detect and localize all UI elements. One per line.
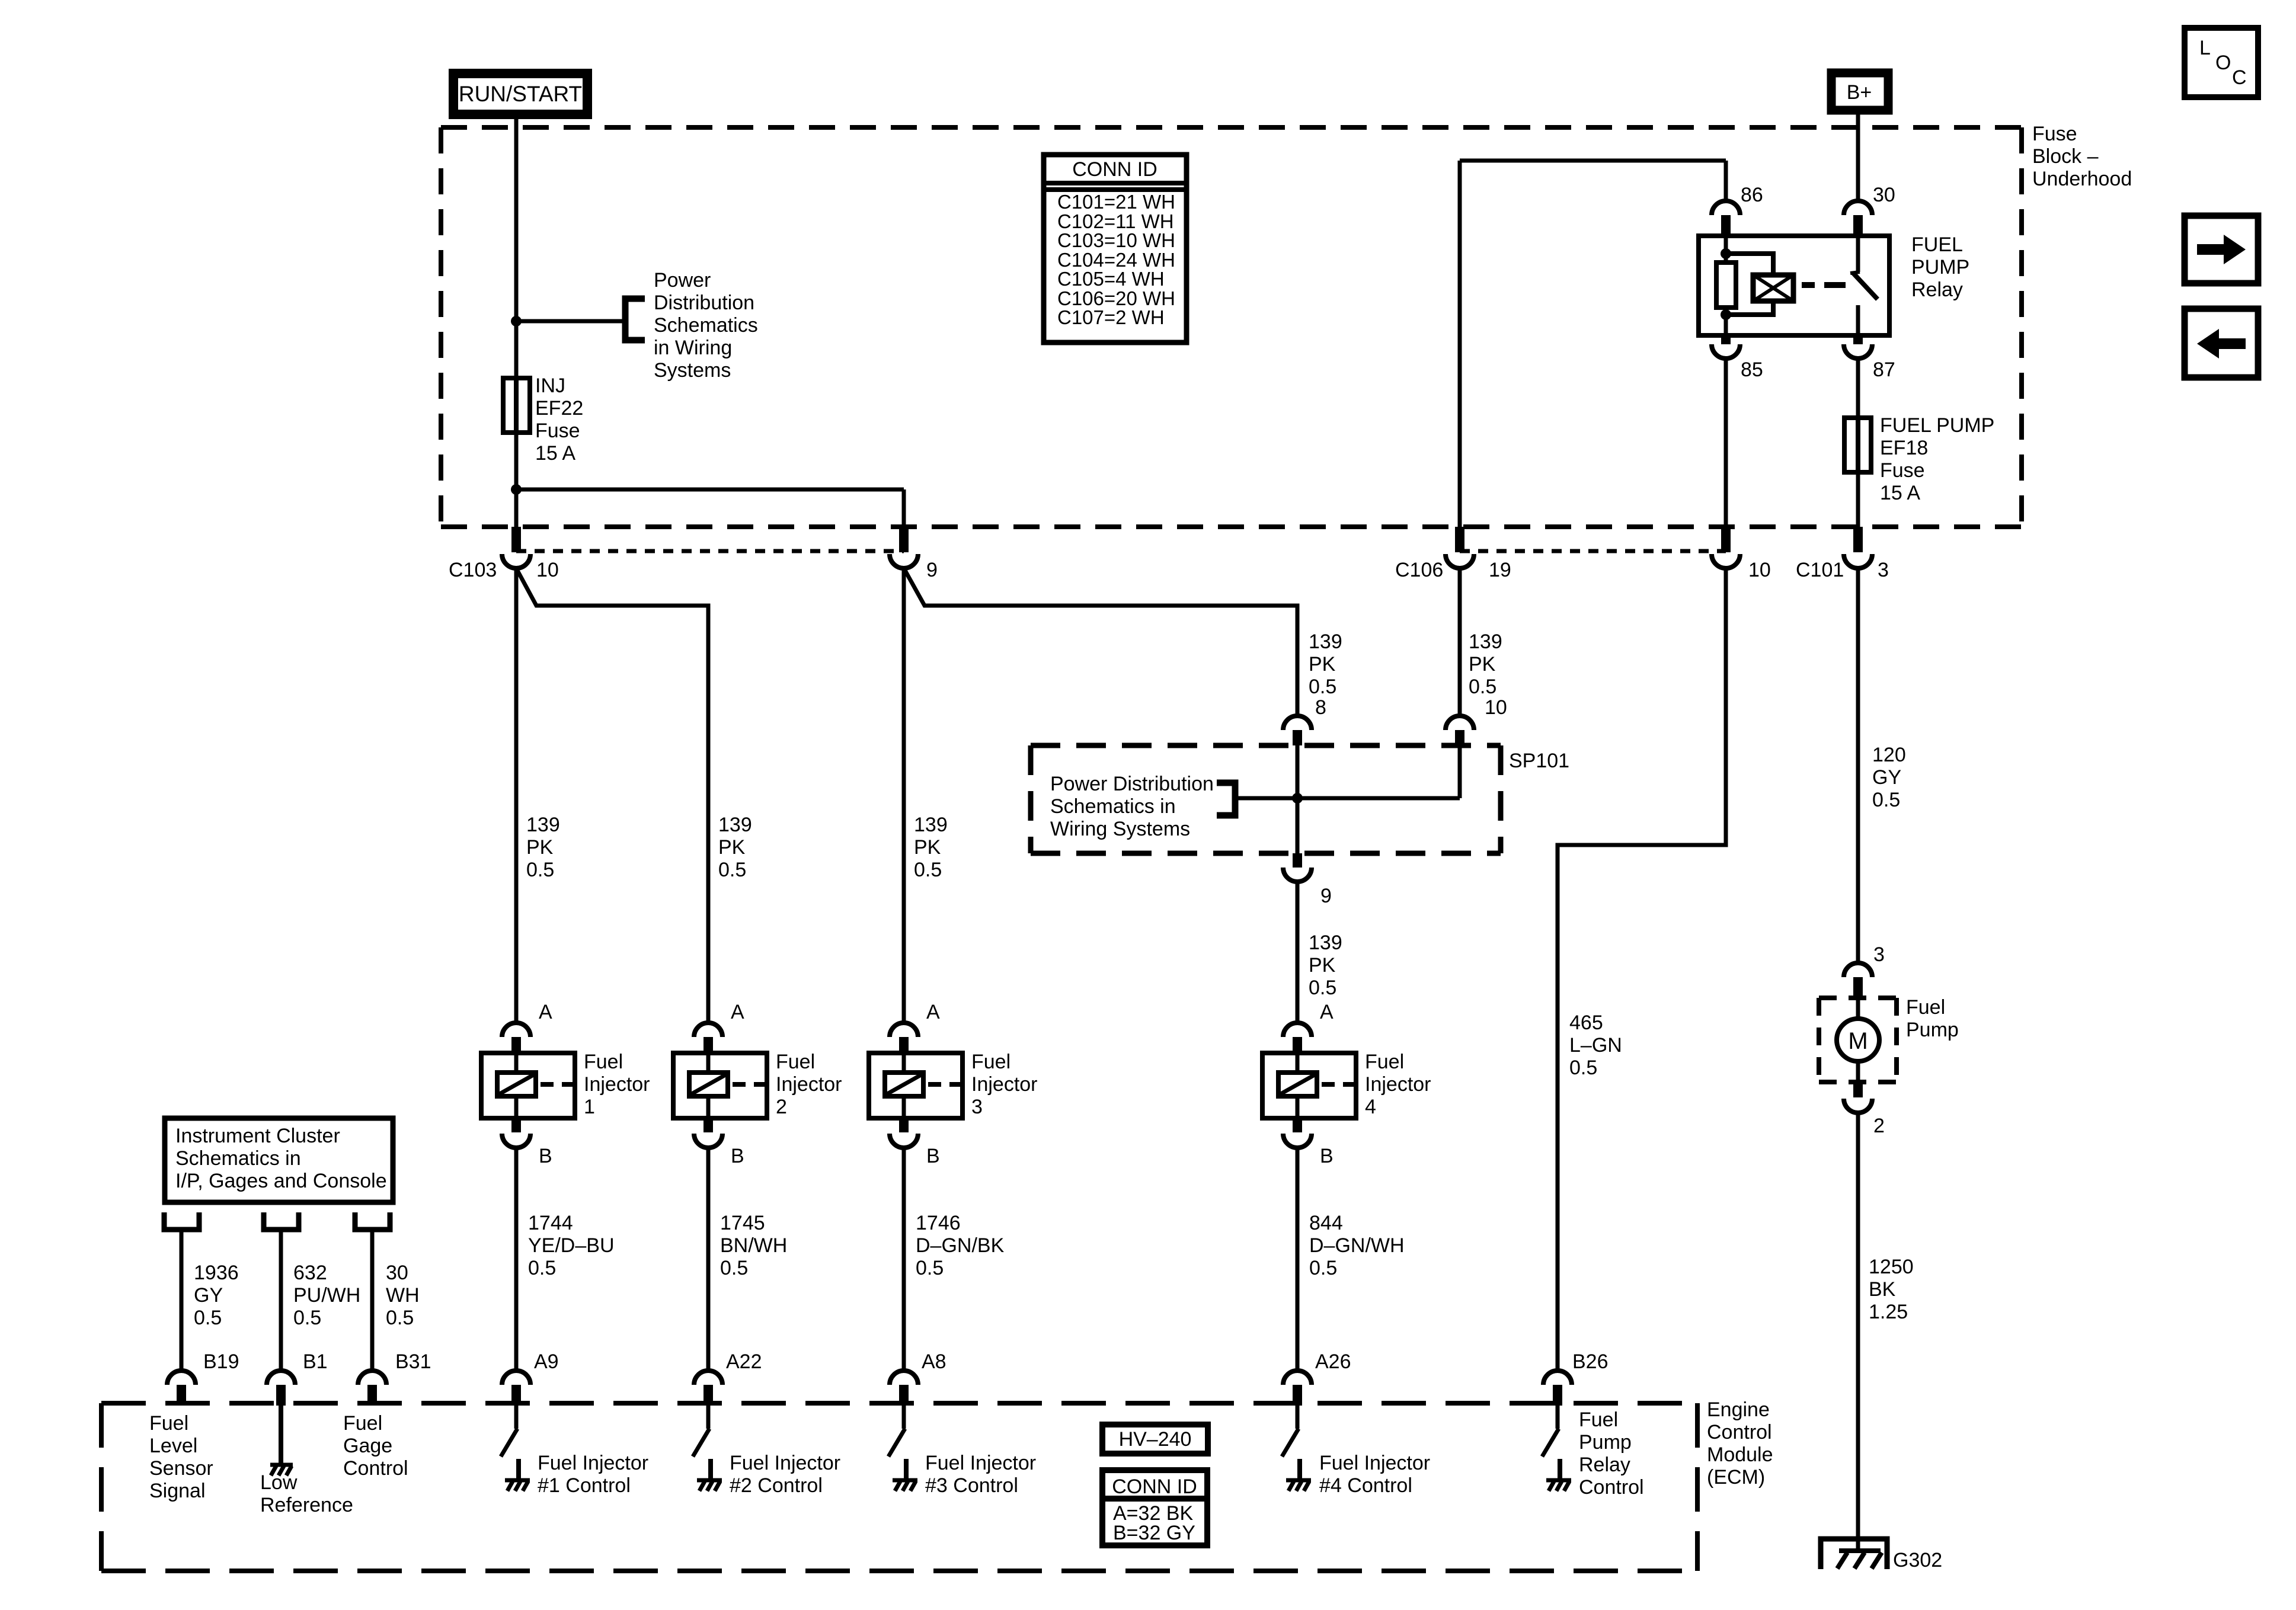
svg-text:INJ: INJ — [535, 375, 565, 397]
wire cluster to B19 — [180, 1230, 184, 1371]
svg-text:C105=4 WH: C105=4 WH — [1057, 268, 1165, 290]
svg-text:C101=21 WH: C101=21 WH — [1057, 191, 1175, 213]
wire injector 2 branch — [516, 568, 708, 1023]
label Fuel Injector #4 Control — [1319, 1452, 1430, 1497]
node junction below EF22 — [511, 484, 522, 495]
wire SP101 pin 8 internal drop — [1296, 745, 1300, 853]
wire pin 9 drop — [902, 489, 906, 527]
svg-text:B19: B19 — [203, 1350, 239, 1373]
wire SP101 pin 9 to injector 4 — [1296, 882, 1300, 1023]
svg-text:RUN/START: RUN/START — [459, 82, 582, 106]
connector SP101 pin 9 — [1283, 853, 1332, 907]
ground low reference — [270, 1465, 293, 1475]
connector B26 — [1543, 1350, 1609, 1406]
svg-text:0.5: 0.5 — [720, 1257, 748, 1279]
svg-text:Sensor: Sensor — [149, 1457, 213, 1480]
svg-text:1: 1 — [584, 1096, 595, 1118]
svg-text:1936: 1936 — [194, 1262, 239, 1284]
label 139 PK 0.5 injector 3 — [914, 814, 948, 881]
svg-text:Fuel: Fuel — [971, 1051, 1011, 1073]
svg-text:19: 19 — [1489, 559, 1511, 581]
connector C103 pin 10 — [449, 527, 559, 581]
svg-text:B26: B26 — [1572, 1350, 1609, 1373]
connector SP101 pin 10 — [1446, 696, 1507, 745]
svg-text:D–GN/WH: D–GN/WH — [1309, 1234, 1405, 1257]
svg-text:PK: PK — [526, 836, 554, 859]
label 632 PU/WH 0.5 — [293, 1262, 360, 1329]
fuel injector 3 — [869, 1001, 1038, 1167]
svg-text:2: 2 — [776, 1096, 787, 1118]
svg-text:PU/WH: PU/WH — [293, 1284, 360, 1307]
connector B31 — [358, 1350, 431, 1406]
connector id table CONN ID — [1044, 155, 1187, 343]
legend box arrow right — [2185, 216, 2258, 283]
connector A8 — [890, 1350, 946, 1406]
fuse INJ EF22 15A — [503, 378, 530, 433]
switch fuel injector 1 control — [501, 1406, 530, 1491]
svg-text:0.5: 0.5 — [386, 1307, 414, 1329]
svg-text:10: 10 — [1748, 559, 1771, 581]
svg-text:B: B — [1320, 1145, 1334, 1167]
svg-text:Systems: Systems — [654, 359, 731, 382]
label Fuel Level Sensor Signal — [149, 1412, 213, 1502]
label Engine Control Module (ECM) — [1707, 1398, 1773, 1489]
wire injector 4 branch — [904, 568, 1297, 716]
relay actuator dashes — [1802, 282, 1815, 288]
svg-text:Power: Power — [654, 269, 711, 292]
svg-text:PK: PK — [1309, 954, 1336, 977]
svg-text:Injector: Injector — [584, 1073, 650, 1096]
svg-text:632: 632 — [293, 1262, 327, 1284]
svg-text:PK: PK — [1469, 653, 1496, 676]
svg-text:Injector: Injector — [776, 1073, 842, 1096]
fuel pump dashed box — [1819, 998, 1897, 1082]
svg-text:B: B — [926, 1145, 940, 1167]
fuel injector 1 — [481, 1001, 650, 1167]
wire injector 4 to A26 — [1296, 1148, 1300, 1371]
label INJ EF22 Fuse 15 A — [535, 375, 583, 465]
svg-text:1250: 1250 — [1869, 1256, 1914, 1278]
svg-text:3: 3 — [1878, 559, 1889, 581]
label Fuel Injector #3 Control — [925, 1452, 1036, 1497]
svg-text:I/P, Gages and Console: I/P, Gages and Console — [175, 1170, 387, 1192]
svg-text:Distribution: Distribution — [654, 292, 754, 314]
svg-text:Schematics: Schematics — [654, 314, 758, 337]
connector C106 pin 19 — [1395, 527, 1511, 581]
svg-text:139: 139 — [914, 814, 948, 836]
svg-text:Control: Control — [1707, 1421, 1772, 1443]
connector pin 85 — [1712, 335, 1763, 381]
label Fuel Gage Control — [343, 1412, 408, 1480]
svg-text:D–GN/BK: D–GN/BK — [916, 1234, 1005, 1257]
svg-text:2: 2 — [1873, 1115, 1885, 1137]
svg-text:Block –: Block – — [2032, 145, 2099, 168]
ground G302 — [1821, 1539, 1942, 1571]
svg-text:EF18: EF18 — [1880, 437, 1928, 459]
wire SP101 internal horizontal — [1235, 796, 1460, 801]
svg-text:1.25: 1.25 — [1869, 1301, 1908, 1323]
bracket power distribution schematics — [625, 299, 645, 340]
svg-text:3: 3 — [1873, 943, 1885, 966]
svg-text:1746: 1746 — [916, 1212, 961, 1234]
svg-text:M: M — [1848, 1028, 1868, 1054]
svg-text:0.5: 0.5 — [1569, 1057, 1597, 1079]
svg-text:CONN ID: CONN ID — [1072, 158, 1157, 181]
label Low Reference — [260, 1471, 353, 1516]
svg-text:L–GN: L–GN — [1569, 1034, 1622, 1057]
svg-text:465: 465 — [1569, 1012, 1603, 1034]
svg-text:139: 139 — [526, 814, 560, 836]
svg-text:A26: A26 — [1315, 1350, 1351, 1373]
svg-text:0.5: 0.5 — [293, 1307, 321, 1329]
label 139 PK 0.5 injector 1 — [526, 814, 560, 881]
svg-text:YE/D–BU: YE/D–BU — [528, 1234, 615, 1257]
svg-text:B+: B+ — [1847, 81, 1872, 104]
svg-text:30: 30 — [1873, 184, 1895, 206]
svg-text:30: 30 — [386, 1262, 408, 1284]
label 1250 BK 1.25 — [1869, 1256, 1914, 1323]
svg-text:Module: Module — [1707, 1443, 1773, 1466]
svg-text:Fuel: Fuel — [584, 1051, 623, 1073]
wire injector 2 to A22 — [706, 1148, 711, 1371]
switch fuel injector 4 control — [1282, 1406, 1311, 1491]
fuse FUEL PUMP EF18 15A — [1844, 418, 1871, 472]
bracket SP101 power distribution — [1217, 783, 1235, 815]
label Fuel Injector #2 Control — [730, 1452, 840, 1497]
wire RUN/START to junction — [514, 119, 519, 321]
connector pin 87 — [1844, 335, 1895, 381]
svg-text:CONN ID: CONN ID — [1112, 1475, 1197, 1498]
connector B1 — [267, 1350, 328, 1406]
svg-text:#1 Control: #1 Control — [538, 1474, 631, 1497]
svg-text:1744: 1744 — [528, 1212, 573, 1234]
svg-text:Fuel Injector: Fuel Injector — [538, 1452, 648, 1474]
svg-text:0.5: 0.5 — [1469, 676, 1496, 698]
svg-text:Low: Low — [260, 1471, 298, 1494]
svg-text:0.5: 0.5 — [528, 1257, 556, 1279]
label Power Distribution Schematics in Wiring Systems — [654, 269, 758, 382]
label Power Distribution Schematics in Wiring Systems SP101 — [1050, 773, 1214, 840]
svg-text:Fuel: Fuel — [343, 1412, 382, 1435]
svg-text:139: 139 — [1469, 630, 1502, 653]
connector SP101 pin 8 — [1283, 696, 1326, 745]
svg-text:Fuel: Fuel — [1365, 1051, 1404, 1073]
svg-text:Fuel: Fuel — [1579, 1409, 1618, 1431]
svg-text:Level: Level — [149, 1435, 197, 1457]
label 1936 GY 0.5 — [194, 1262, 239, 1329]
svg-text:A9: A9 — [534, 1350, 559, 1373]
svg-text:Injector: Injector — [1365, 1073, 1431, 1096]
connector C103 dotted span — [516, 549, 904, 553]
wire junction to power distribution bracket — [516, 319, 623, 324]
svg-text:BK: BK — [1869, 1278, 1896, 1301]
svg-text:A: A — [926, 1001, 940, 1023]
svg-text:PK: PK — [914, 836, 941, 859]
svg-text:Pump: Pump — [1906, 1019, 1959, 1041]
svg-text:0.5: 0.5 — [1309, 1257, 1337, 1279]
svg-text:9: 9 — [1320, 885, 1332, 907]
svg-text:139: 139 — [718, 814, 752, 836]
svg-text:Schematics in: Schematics in — [175, 1147, 301, 1170]
svg-text:B: B — [539, 1145, 552, 1167]
switch fuel injector 3 control — [888, 1406, 917, 1491]
wire relay 85 to connector 10 — [1724, 359, 1728, 527]
svg-text:0.5: 0.5 — [914, 859, 942, 881]
wire cluster to B31 — [370, 1230, 375, 1371]
svg-text:Gage: Gage — [343, 1435, 392, 1457]
svg-text:139: 139 — [1309, 630, 1342, 653]
node SP101 junction — [1292, 793, 1303, 804]
svg-text:#3 Control: #3 Control — [925, 1474, 1018, 1497]
splice SP101 dashed box — [1031, 745, 1501, 853]
svg-text:EF22: EF22 — [535, 397, 583, 420]
power node RUN/START — [453, 73, 587, 114]
svg-text:8: 8 — [1315, 696, 1326, 719]
svg-text:PK: PK — [1309, 653, 1336, 676]
svg-text:85: 85 — [1741, 359, 1763, 381]
connector C103 pin 9 — [890, 527, 938, 581]
label Fuse Block - Underhood — [2032, 123, 2132, 190]
svg-text:Control: Control — [1579, 1476, 1644, 1499]
wire fuse EF18 to C101 pin 3 — [1856, 472, 1860, 527]
svg-text:Fuel: Fuel — [776, 1051, 815, 1073]
wire SP101 pin 10 internal drop — [1458, 745, 1462, 798]
bracket cluster output 2 — [264, 1212, 299, 1230]
svg-text:B: B — [731, 1145, 744, 1167]
fuel injector 4 — [1262, 1001, 1431, 1167]
svg-text:Fuel: Fuel — [149, 1412, 188, 1435]
svg-text:FUEL: FUEL — [1911, 233, 1963, 256]
label 1744 YE/D-BU 0.5 — [528, 1212, 615, 1279]
svg-text:BN/WH: BN/WH — [720, 1234, 787, 1257]
label 1746 D-GN/BK 0.5 — [916, 1212, 1005, 1279]
svg-text:C: C — [2232, 66, 2247, 89]
connector A26 — [1283, 1350, 1351, 1406]
label 139 PK 0.5 injector 2 — [718, 814, 752, 881]
switch fuel pump relay control — [1542, 1406, 1571, 1491]
svg-text:Control: Control — [343, 1457, 408, 1480]
wire injector 3 to A8 — [902, 1148, 906, 1371]
wire connector 10 to B26 jog — [1558, 568, 1726, 1371]
svg-text:C103=10 WH: C103=10 WH — [1057, 229, 1175, 251]
svg-text:Signal: Signal — [149, 1480, 206, 1502]
svg-text:WH: WH — [386, 1284, 420, 1307]
wire fuel pump to G302 — [1856, 1113, 1860, 1551]
svg-text:9: 9 — [926, 559, 938, 581]
relay coil box — [1753, 275, 1793, 301]
svg-text:A: A — [1320, 1001, 1334, 1023]
svg-text:FUEL PUMP: FUEL PUMP — [1880, 414, 1994, 437]
svg-text:C101: C101 — [1796, 559, 1844, 581]
svg-text:Schematics in: Schematics in — [1050, 795, 1176, 818]
connector pin 30 — [1844, 184, 1895, 237]
relay coil loop — [1726, 254, 1773, 315]
svg-text:in Wiring: in Wiring — [654, 337, 732, 359]
svg-text:HV–240: HV–240 — [1119, 1428, 1192, 1451]
svg-text:GY: GY — [1872, 766, 1901, 789]
svg-text:A: A — [731, 1001, 744, 1023]
wire injector 1 to A9 — [514, 1148, 519, 1371]
reference box HV-240 — [1102, 1425, 1208, 1454]
label 139 PK 0.5 injector 4 upper — [1309, 630, 1342, 698]
bracket cluster output 1 — [164, 1212, 199, 1230]
svg-text:#4 Control: #4 Control — [1319, 1474, 1412, 1497]
relay FUEL PUMP Relay — [1699, 236, 1889, 335]
svg-text:Instrument Cluster: Instrument Cluster — [175, 1125, 340, 1147]
svg-text:PK: PK — [718, 836, 746, 859]
svg-text:C103: C103 — [449, 559, 497, 581]
svg-text:Reference: Reference — [260, 1494, 353, 1516]
wire B+ to relay pin 30 — [1856, 114, 1860, 201]
svg-text:A22: A22 — [726, 1350, 762, 1373]
svg-text:0.5: 0.5 — [1872, 789, 1900, 811]
wire B1 to low reference ground — [279, 1406, 283, 1465]
wire relay pin 86 riser — [1724, 161, 1728, 201]
svg-text:G302: G302 — [1893, 1549, 1942, 1571]
svg-text:Relay: Relay — [1911, 279, 1963, 301]
fuse block underhood dashed border — [441, 127, 2022, 527]
svg-text:Wiring Systems: Wiring Systems — [1050, 818, 1190, 840]
svg-text:Fuse: Fuse — [535, 420, 580, 442]
svg-text:139: 139 — [1309, 932, 1342, 954]
label FUEL PUMP EF18 Fuse 15 A — [1880, 414, 1994, 504]
label 139 PK 0.5 C106 feed — [1469, 630, 1502, 698]
svg-text:Underhood: Underhood — [2032, 168, 2132, 190]
wire top link to C106 — [1460, 159, 1726, 163]
label Fuel Pump Relay Control — [1579, 1409, 1644, 1499]
connector fuel pump pin 3 — [1844, 943, 1885, 998]
wire injector 1 feed — [514, 568, 519, 1023]
fuel injector 2 — [673, 1001, 842, 1167]
svg-text:Fuel Injector: Fuel Injector — [730, 1452, 840, 1474]
label 465 L-GN 0.5 — [1569, 1012, 1622, 1079]
wire injector 3 feed — [902, 568, 906, 1023]
wire C101 pin 3 to fuel pump — [1856, 568, 1860, 963]
svg-text:0.5: 0.5 — [194, 1307, 222, 1329]
svg-text:1745: 1745 — [720, 1212, 765, 1234]
bracket cluster output 3 — [355, 1212, 390, 1230]
svg-text:0.5: 0.5 — [916, 1257, 944, 1279]
label Fuel Injector #1 Control — [538, 1452, 648, 1497]
svg-text:844: 844 — [1309, 1212, 1343, 1234]
label 139 PK 0.5 injector 4 lower — [1309, 932, 1342, 999]
svg-text:87: 87 — [1873, 359, 1895, 381]
connector fuel pump pin 2 — [1844, 1082, 1885, 1137]
svg-text:B1: B1 — [303, 1350, 328, 1373]
wire junction to fuse EF22 — [514, 321, 519, 382]
ECM dashed border — [101, 1403, 1697, 1571]
svg-text:B31: B31 — [395, 1350, 431, 1373]
relay switch — [1856, 236, 1860, 272]
svg-text:Fuel Injector: Fuel Injector — [1319, 1452, 1430, 1474]
svg-text:O: O — [2215, 52, 2231, 74]
svg-text:Injector: Injector — [971, 1073, 1038, 1096]
svg-text:C107=2 WH: C107=2 WH — [1057, 306, 1165, 328]
label 30 WH 0.5 — [386, 1262, 420, 1329]
svg-text:L: L — [2199, 37, 2211, 59]
label Fuel Pump — [1906, 996, 1959, 1041]
svg-text:0.5: 0.5 — [526, 859, 554, 881]
connector B19 — [167, 1350, 239, 1406]
svg-text:Fuse: Fuse — [1880, 459, 1925, 482]
connector A22 — [694, 1350, 762, 1406]
svg-text:0.5: 0.5 — [1309, 676, 1336, 698]
legend box arrow left — [2185, 309, 2258, 377]
svg-text:4: 4 — [1365, 1096, 1376, 1118]
svg-text:10: 10 — [536, 559, 559, 581]
svg-text:Fuel: Fuel — [1906, 996, 1945, 1019]
wire junction 2 to pin 9 column — [516, 488, 904, 492]
wire C106 pin 19 drop — [1458, 161, 1462, 527]
connector pin 86 — [1712, 184, 1763, 237]
legend box LOC — [2185, 28, 2258, 97]
label 1745 BN/WH 0.5 — [720, 1212, 787, 1279]
svg-text:A: A — [539, 1001, 552, 1023]
svg-text:Relay: Relay — [1579, 1454, 1630, 1476]
svg-text:(ECM): (ECM) — [1707, 1466, 1765, 1489]
label FUEL PUMP Relay — [1911, 233, 1969, 301]
svg-text:B=32 GY: B=32 GY — [1113, 1522, 1195, 1544]
wire fuse EF22 to junction 2 — [514, 433, 519, 527]
label 844 D-GN/WH 0.5 — [1309, 1212, 1405, 1279]
svg-text:SP101: SP101 — [1509, 750, 1569, 772]
svg-text:0.5: 0.5 — [718, 859, 746, 881]
svg-text:Power Distribution: Power Distribution — [1050, 773, 1214, 795]
connector C106 pin 10 — [1712, 527, 1771, 581]
svg-text:C106: C106 — [1395, 559, 1443, 581]
svg-text:#2 Control: #2 Control — [730, 1474, 823, 1497]
svg-text:PUMP: PUMP — [1911, 256, 1969, 279]
wire relay 87 to fuse EF18 — [1856, 359, 1860, 418]
power node B+ — [1831, 73, 1888, 110]
svg-text:86: 86 — [1741, 184, 1763, 206]
svg-text:10: 10 — [1485, 696, 1507, 719]
switch fuel injector 2 control — [693, 1406, 722, 1491]
svg-text:Fuse: Fuse — [2032, 123, 2077, 145]
svg-text:0.5: 0.5 — [1309, 977, 1336, 999]
reference box ECM CONN ID — [1099, 1470, 1210, 1545]
connector C106 dotted span — [1460, 549, 1726, 553]
connector C101 pin 3 — [1796, 527, 1889, 581]
svg-text:15 A: 15 A — [535, 442, 575, 465]
relay coil resistor — [1716, 263, 1736, 308]
label 120 GY 0.5 — [1872, 744, 1906, 811]
svg-text:GY: GY — [194, 1284, 223, 1307]
wire C106 pin 19 to SP101 — [1458, 568, 1462, 716]
fuel pump motor M — [1837, 998, 1879, 1082]
connector A9 — [502, 1350, 559, 1406]
svg-text:Engine: Engine — [1707, 1398, 1770, 1421]
instrument cluster reference box — [165, 1118, 393, 1202]
svg-text:Fuel Injector: Fuel Injector — [925, 1452, 1036, 1474]
svg-text:3: 3 — [971, 1096, 983, 1118]
svg-text:15 A: 15 A — [1880, 482, 1920, 504]
svg-text:120: 120 — [1872, 744, 1906, 766]
wire cluster to B1 — [279, 1230, 283, 1371]
svg-text:Pump: Pump — [1579, 1431, 1632, 1454]
svg-text:A8: A8 — [922, 1350, 946, 1373]
node junction at power distribution tap — [511, 316, 522, 327]
